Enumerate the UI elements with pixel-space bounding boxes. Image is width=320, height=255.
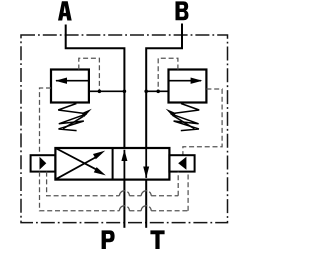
pilot operator right (hydraulic pilot cap) [169, 155, 194, 171]
spring of RV2 (adjustable) [171, 104, 200, 131]
pilot line of RV2 (dashed, from B junction to box top) [158, 58, 178, 91]
V1 right position: parallel flow paths [121, 148, 149, 180]
port label T [150, 230, 164, 249]
pilot drain loop upper (dashed with bridges over P and T) [47, 172, 179, 196]
junction node A line / RV1 outlet [123, 90, 127, 94]
pilot line of RV1 (dashed, from A junction to box top) [79, 58, 100, 91]
junction node at RV1 pilot tap [98, 90, 102, 94]
relief valve RV2 body (right) [169, 70, 207, 103]
junction node at RV2 pilot tap [156, 90, 160, 94]
port label P [102, 230, 115, 249]
enclosure boundary (dash-dot manifold border) [21, 35, 228, 223]
adjustment arrow of RV1 [63, 109, 92, 129]
drain line of RV1 (dashed, to left pilot cap) [40, 88, 52, 155]
port label A [58, 1, 72, 20]
pilot supply loop lower (dashed with bridges over P and T) [40, 172, 189, 211]
wire: port B line down and over to valve port [146, 24, 182, 149]
directional valve V1 body [55, 148, 169, 180]
drain line of RV2 (dashed, to right pilot cap) [183, 89, 222, 155]
relief valve RV1 body (left) [51, 70, 89, 103]
adjustment arrow of RV2 [166, 109, 195, 129]
port label B [176, 1, 189, 20]
wire: left relief valve outlet to A line [89, 90, 125, 92]
junction node B line / RV2 inlet [144, 90, 148, 94]
wire: right relief valve inlet to B line [146, 90, 168, 92]
pilot operator left (hydraulic pilot cap) [31, 155, 56, 171]
wire: port A line down and over to valve port [66, 25, 125, 149]
spring of RV1 (adjustable) [58, 104, 87, 131]
wire: T line below valve [145, 180, 147, 228]
V1 left position: crossed flow paths [55, 148, 105, 179]
wire: P line below valve [123, 180, 125, 228]
